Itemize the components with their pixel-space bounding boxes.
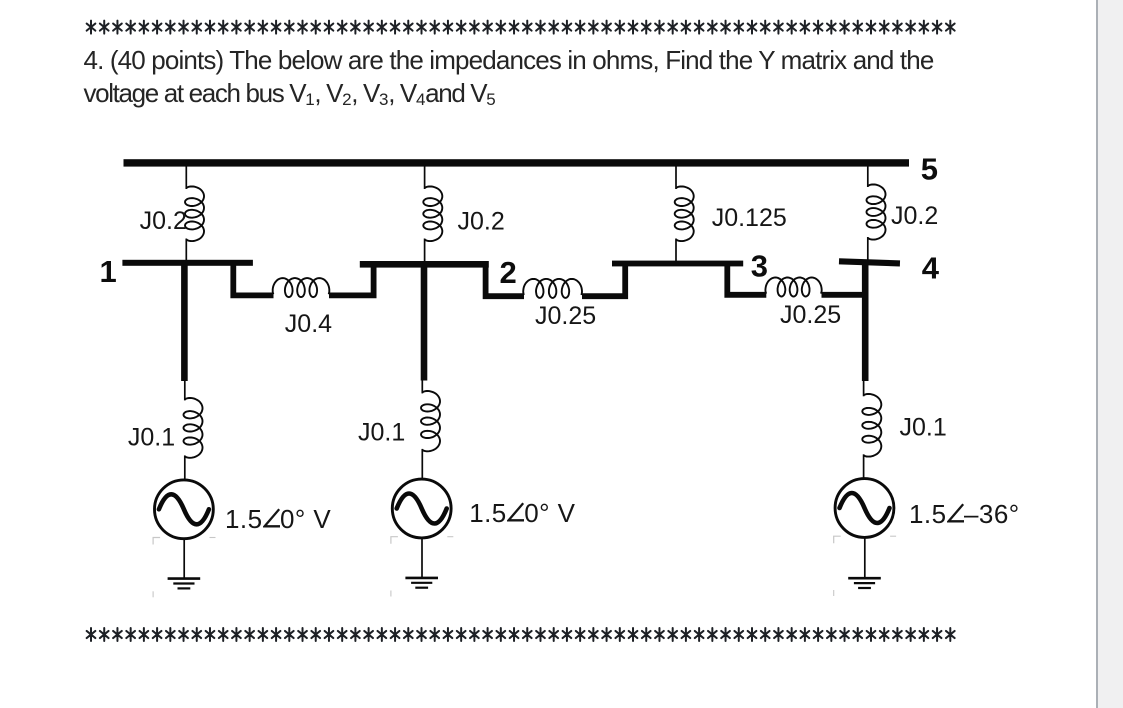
svg-text:J0.1: J0.1: [900, 413, 947, 441]
svg-text:J0.25: J0.25: [780, 301, 841, 329]
svg-text:1: 1: [100, 254, 117, 289]
svg-text:J0.25: J0.25: [535, 302, 596, 330]
svg-text:J0.1: J0.1: [358, 419, 405, 447]
svg-text:J0.2: J0.2: [458, 208, 505, 236]
svg-text:3: 3: [751, 249, 768, 284]
svg-text:2: 2: [500, 255, 517, 290]
svg-text:5: 5: [921, 152, 938, 187]
svg-text:J0.4: J0.4: [285, 310, 332, 338]
svg-text:J0.125: J0.125: [712, 204, 787, 232]
svg-text:J0.2: J0.2: [891, 202, 938, 230]
svg-text:J0.1: J0.1: [128, 424, 175, 452]
svg-text:4: 4: [922, 251, 940, 286]
svg-text:J0.2: J0.2: [140, 207, 187, 235]
